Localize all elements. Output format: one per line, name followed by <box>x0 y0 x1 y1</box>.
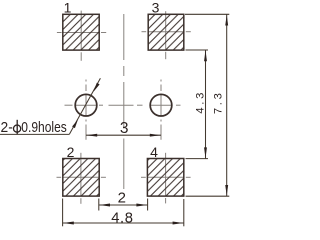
svg-text:4.8: 4.8 <box>111 210 133 226</box>
svg-text:2: 2 <box>118 190 126 207</box>
svg-text:2: 2 <box>67 144 75 160</box>
svg-text:0.9holes: 0.9holes <box>21 119 67 136</box>
svg-text:3: 3 <box>120 120 129 137</box>
svg-text:4: 4 <box>150 144 158 160</box>
svg-text:7.3: 7.3 <box>213 90 225 114</box>
svg-text:3: 3 <box>152 0 160 15</box>
svg-text:1: 1 <box>64 0 72 15</box>
svg-text:4.3: 4.3 <box>194 90 206 114</box>
svg-text:2-: 2- <box>1 119 13 136</box>
